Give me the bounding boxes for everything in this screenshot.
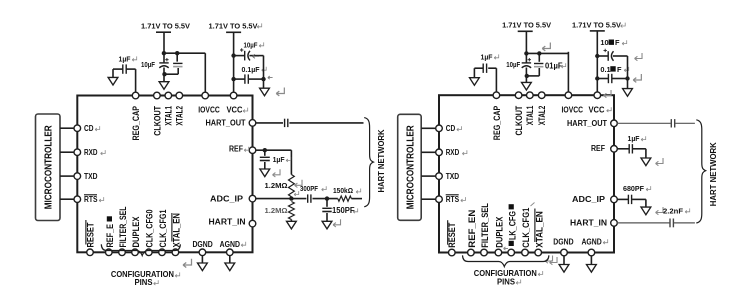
wire parallel cap to merge (right) (538, 68, 540, 76)
modem IC U2 body (439, 95, 614, 252)
svg-text:CLK_CFG0: CLK_CFG0 (145, 209, 155, 247)
missing-glyph boxes in CLK_CFG0 (509, 241, 514, 246)
svg-text:CLK_CFG1: CLK_CFG1 (158, 209, 168, 247)
svg-text:1µF: 1µF (119, 54, 132, 63)
wire merge caps (right) (526, 75, 539, 77)
pin CLKOUT (154, 92, 161, 99)
svg-text:RTS: RTS (84, 195, 98, 204)
mark after 1uF (right) (494, 54, 499, 59)
ground supply2 (260, 88, 270, 96)
capacitor 0.1uF (VCC right) (607, 74, 609, 83)
svg-text:CD: CD (84, 124, 94, 133)
mark after 0.1uF (262, 67, 267, 72)
svg-text:MICROCONTROLLER: MICROCONTROLLER (44, 125, 55, 210)
junction VCC 0.1uF tap (231, 77, 235, 81)
wire 10uF to vert (right) (613, 55, 628, 57)
capacitor 1uF (REF right) (628, 144, 630, 153)
resistor 1.2M upper (289, 175, 295, 197)
pin HART_OUT (249, 120, 256, 127)
pin REF (249, 147, 256, 154)
wire MCU to RTS (60, 198, 74, 200)
mark after 1uF REF (286, 157, 291, 162)
pin VCC (230, 92, 237, 99)
svg-text:LK_CFG: LK_CFG (507, 211, 517, 240)
svg-text:10: 10 (600, 38, 608, 47)
wire parallel cap to merge (177, 68, 179, 74)
mark after supply2 label (right) (621, 23, 626, 28)
ground DGND (right) (563, 256, 565, 265)
ground REG_CAP cap (108, 77, 118, 85)
overline RTS (right) (446, 194, 459, 196)
capacitor 10uF polarized (IOVCC right) (522, 62, 531, 64)
svg-text:HART_IN: HART_IN (570, 218, 607, 227)
wire 0.1uF to vert (249, 78, 264, 80)
modem IC U1 body (77, 96, 252, 253)
svg-text:REF: REF (229, 144, 243, 153)
wire supply1 node to IOVCC corner (164, 52, 205, 54)
wire cap to corner (right) (632, 198, 646, 200)
pin TXD (right) (436, 173, 443, 180)
wire cap to network (289, 122, 363, 124)
svg-text:AGND: AGND (581, 237, 602, 246)
capacitor parallel (IOVCC) (173, 62, 182, 64)
svg-text:AGND: AGND (220, 240, 241, 249)
formatting mark near supply2 ground (276, 88, 284, 96)
configuration pins brace (101, 244, 180, 255)
svg-text:RXD: RXD (84, 148, 98, 157)
wire corner down (right) (645, 199, 647, 207)
svg-text:XTAL2: XTAL2 (537, 106, 547, 126)
wire supply2 down to VCC pin (right) (596, 31, 598, 92)
pin REF (right) (611, 146, 618, 153)
junction supply1 left (162, 51, 166, 55)
junction REF cap (263, 148, 267, 152)
overline RESET (right) (447, 220, 449, 245)
ground REG_CAP cap (right) (470, 78, 480, 86)
svg-text:MICROCONTROLLER: MICROCONTROLLER (405, 125, 416, 210)
formatting arrow on wire after 10uF cap (252, 54, 259, 58)
junction supply1 right (right) (537, 51, 541, 55)
pin RXD (74, 149, 81, 156)
wire MCU to CD (60, 127, 74, 129)
pin RESET (87, 249, 94, 256)
wire to 10uF (right) (525, 53, 527, 62)
svg-text:DGND: DGND (553, 237, 574, 246)
ground 680PF (right) (641, 207, 651, 215)
svg-text:10µF: 10µF (141, 60, 156, 69)
svg-text:REG_CAP: REG_CAP (492, 106, 502, 141)
svg-text:1µF: 1µF (481, 52, 494, 61)
wire MCU to TXD (right) (421, 175, 436, 177)
svg-text:HART NETWORK: HART NETWORK (709, 142, 718, 206)
svg-text:1.2MΩ: 1.2MΩ (265, 181, 288, 190)
HART network brace (right) (696, 120, 705, 223)
pin XTAL_EN (right) (535, 249, 542, 256)
wire down to IOVCC pin (right) (567, 52, 569, 92)
mark after 10uF (right) (622, 40, 627, 45)
pin HART_IN (249, 220, 256, 227)
svg-text:1µF: 1µF (273, 155, 286, 164)
overline XTAL_EN (right) (534, 209, 536, 243)
svg-text:XTAL_EN: XTAL_EN (534, 211, 544, 248)
overline XTAL_EN (171, 213, 173, 242)
mark after RTS (right) (461, 197, 466, 202)
formatting mark near supply2 ground (right) (633, 74, 641, 82)
svg-text:F: F (617, 65, 622, 74)
wire REG_CAP up (right) (495, 68, 497, 92)
wire down to ground (right) (473, 68, 475, 78)
wire cap to ground leg (113, 68, 123, 70)
wire cap to ground leg (right) (474, 67, 483, 69)
pin CLKOUT (right) (515, 92, 522, 99)
svg-text:1µF: 1µF (628, 134, 641, 143)
wire supply1 down (163, 32, 165, 53)
pin RXD (right) (436, 149, 443, 156)
capacitor 0.1uF (VCC) (244, 74, 246, 83)
wire caps to ground (right) (627, 56, 629, 89)
formatting mark near brace (183, 259, 192, 268)
svg-text:150PF: 150PF (332, 206, 355, 215)
wire down to ground (112, 69, 114, 77)
svg-text:10µF: 10µF (244, 40, 259, 49)
svg-text:ADC_IP: ADC_IP (572, 195, 606, 204)
svg-text:VCC: VCC (589, 105, 605, 114)
wire cap to REG_CAP (126, 68, 135, 70)
wire corner down (right) (645, 149, 647, 158)
formatting mark near REF ground (right) (656, 158, 663, 166)
pin IOVCC (202, 92, 209, 99)
svg-text:IOVCC: IOVCC (198, 106, 220, 115)
svg-text:680PF: 680PF (623, 184, 644, 193)
svg-text:F: F (615, 38, 620, 47)
mark after RXD (101, 150, 106, 155)
mark after PINS (154, 280, 159, 285)
svg-text:HART_IN: HART_IN (209, 218, 246, 227)
pin CD (74, 125, 81, 132)
wire REF to cap (right) (617, 148, 629, 150)
svg-text:REG_CAP: REG_CAP (131, 106, 141, 141)
wire 0.1uF to vert (right) (612, 78, 627, 80)
ground AGND (229, 256, 231, 264)
configuration pins brace (right) (463, 255, 549, 266)
svg-text:IOVCC: IOVCC (562, 105, 584, 114)
stray mark between DUPLEX and CLK_CFG0 (504, 247, 509, 250)
wire ADC_IP to cap (right) (617, 198, 628, 200)
overline RESET (85, 220, 87, 245)
svg-text:FILTER_SEL: FILTER_SEL (118, 206, 128, 247)
svg-text:XTAL1: XTAL1 (164, 106, 174, 126)
ground 150PF (322, 221, 332, 229)
missing-glyph box in 0.1uF label (610, 66, 615, 71)
mark after 1uF REF (right) (641, 136, 646, 141)
wire REF cap to ground (264, 162, 266, 169)
formatting mark near 680PF ground (right) (656, 207, 663, 215)
wire down to IOVCC pin (204, 53, 206, 92)
pin XTAL1 (right) (527, 92, 534, 99)
pin XTAL_EN (172, 249, 179, 256)
pin DUPLEX (132, 249, 139, 256)
capacitor 1uF (REG_CAP) (122, 64, 124, 73)
wire lower resistor to ground (290, 220, 292, 222)
svg-text:0.1µF: 0.1µF (242, 65, 261, 74)
pin RTS (74, 196, 81, 203)
mark after RXD (right) (462, 150, 467, 155)
junction 150PF (325, 196, 329, 200)
svg-text:TXD: TXD (84, 172, 98, 181)
pin HART_OUT (right) (611, 120, 618, 127)
wire 10uF to merge (163, 68, 165, 75)
wire 150k to network (351, 198, 362, 200)
svg-text:XTAL_EN: XTAL_EN (171, 213, 181, 248)
svg-text:RESET: RESET (85, 222, 95, 248)
svg-text:DUPLEX: DUPLEX (495, 217, 505, 248)
formatting arrow near 0.1uF wire (268, 76, 273, 79)
wire HART_IN to cap (right) (617, 222, 669, 224)
HART network brace (364, 118, 373, 207)
svg-text:PINS: PINS (497, 277, 515, 286)
wire cap to network (right) (675, 122, 695, 124)
wire 10uF to merge (right) (525, 68, 527, 76)
pin HART_IN (right) (611, 220, 618, 227)
svg-text:CD: CD (446, 124, 456, 133)
svg-text:TXD: TXD (446, 172, 460, 181)
svg-text:CLKOUT: CLKOUT (152, 105, 162, 135)
pin AGND (right) (588, 249, 595, 256)
pin CD (right) (436, 125, 443, 132)
wire MCU to RTS (right) (421, 198, 436, 200)
pin ADC_IP (249, 195, 256, 202)
pin XTAL2 (right) (538, 92, 545, 99)
mark after 150k (356, 189, 361, 194)
svg-text:REF: REF (591, 144, 605, 153)
capacitor 10uF polarized (IOVCC) (159, 62, 168, 64)
mark after CONFIGURATION (right) (538, 271, 543, 276)
wire HART_OUT to cap (right) (617, 122, 671, 124)
capacitor 680PF (right) (627, 195, 629, 204)
capacitor 10uF polarized (VCC) (244, 51, 246, 61)
wire supply1 to IOVCC corner (right) (526, 52, 568, 54)
mark after CONFIGURATION (175, 272, 180, 277)
svg-text:0.1: 0.1 (600, 65, 610, 74)
pin IOVCC (right) (565, 92, 572, 99)
capacitor 1uF (REG_CAP right) (482, 64, 484, 73)
mark after 10uF (259, 42, 264, 47)
power rail supply2 (226, 31, 241, 33)
capacitor HART_OUT coupling (284, 119, 286, 127)
junction VCC 10uF tap (right) (595, 54, 599, 58)
svg-text:DUPLEX: DUPLEX (131, 216, 141, 247)
formatting mark right of 10uF cap (right) (635, 53, 642, 61)
power rail supply2 (right) (590, 30, 605, 32)
mark after VCC (243, 108, 248, 113)
svg-text:PINS: PINS (135, 278, 153, 287)
resistor 1.2M lower (289, 202, 295, 220)
junction caps merge (right) (525, 74, 529, 78)
pin TXD (74, 173, 81, 180)
wire REF right (256, 149, 292, 151)
stray mark near CLK_CFG1 (531, 203, 535, 207)
wire 10uF to vert (249, 55, 263, 57)
svg-text:REF_E: REF_E (105, 224, 115, 248)
pin RTS (right) (436, 196, 443, 203)
mark after VCC (right) (607, 107, 612, 112)
wire cap to corner (right) (633, 148, 646, 150)
mark after AGND (241, 242, 246, 247)
pin REF_EN (right) (468, 249, 475, 256)
svg-text:10µF: 10µF (506, 60, 521, 69)
mark after supply2 label (257, 23, 262, 28)
capacitor HART_OUT coupling (right) (670, 119, 672, 127)
pin DGND (right) (561, 249, 568, 256)
svg-text:1.71V TO 5.5V: 1.71V TO 5.5V (502, 22, 551, 29)
mark after 680PF (right) (646, 186, 651, 191)
formatting mark near brace (right) (550, 257, 557, 265)
svg-text:ADC_IP: ADC_IP (210, 194, 244, 203)
pin CLK_CFG0 (right) (508, 249, 515, 256)
wire to 10uF cap (163, 53, 165, 62)
wire to 0.1uF (234, 78, 245, 80)
wire to parallel cap (right) (538, 53, 540, 61)
svg-text:HART_OUT: HART_OUT (206, 119, 246, 128)
capacitor 2.2nF (right) (669, 219, 671, 228)
microcontroller block (right) (398, 114, 422, 220)
ground DGND (201, 256, 203, 264)
pin FILTER_SEL (right) (481, 249, 488, 256)
capacitor parallel 01uF (right) (534, 63, 543, 65)
svg-text:CLK_CFG1: CLK_CFG1 (521, 208, 531, 248)
wire MCU to RXD (60, 151, 74, 153)
resistor 150k (338, 196, 352, 201)
formatting mark left of DGND (545, 256, 552, 264)
mark after REF (244, 147, 249, 152)
pin RESET (right) (449, 249, 456, 256)
svg-text:XTAL2: XTAL2 (175, 106, 185, 126)
pin DUPLEX (right) (495, 249, 502, 256)
wire caps to ground (263, 56, 265, 89)
junction VCC 10uF tap (231, 53, 235, 57)
wire merge caps (164, 73, 178, 75)
pin XTAL1 (165, 92, 172, 99)
mark after 150PF (353, 208, 358, 213)
mark after 300PF (322, 186, 327, 191)
junction supply1 left (right) (524, 51, 528, 55)
wire to 150PF (326, 199, 328, 207)
second mark near upper resistor (294, 191, 299, 196)
pin REG_CAP (132, 92, 139, 99)
pin DGND (199, 249, 206, 256)
wire to parallel cap (176, 53, 178, 61)
pin FILTER_SEL (119, 249, 126, 256)
mark after 2.2nF (right) (685, 208, 690, 213)
wire MCU to TXD (60, 175, 74, 177)
capacitor 1uF (REF) (260, 156, 270, 158)
wire cap to REG_CAP (right) (488, 67, 496, 69)
mark after 1uF (132, 56, 137, 61)
pin ADC_IP (right) (611, 196, 618, 203)
formatting mark right of VCC pin (604, 90, 611, 98)
missing-glyph box in REF_EN (107, 216, 112, 221)
wire to 10uF (234, 55, 245, 57)
junction caps merge (162, 72, 166, 76)
pin CLK_CFG0 (146, 249, 153, 256)
junction ADC_IP divider (289, 196, 293, 200)
svg-text:REF_EN: REF_EN (467, 210, 477, 248)
mark after 01uF (561, 63, 566, 68)
ground supply1 (right) (525, 76, 527, 83)
mark after RTS (99, 197, 104, 202)
svg-text:RESET: RESET (447, 222, 457, 248)
power rail supply1 (156, 31, 171, 33)
junction 0.1uF to ground (261, 77, 265, 81)
wire MCU to RXD (right) (421, 151, 436, 153)
capacitor 300PF (307, 194, 309, 202)
mark after AGND (right) (603, 239, 608, 244)
mark after CD (right) (457, 126, 462, 131)
mark after PINS (right) (516, 280, 521, 285)
ground REF cap (260, 169, 270, 177)
mark after 0.1uF (right) (624, 67, 629, 72)
ground AGND (right) (590, 256, 592, 265)
wire to 10uF (right) (597, 55, 608, 57)
wire 300PF to 150k (313, 198, 338, 200)
power rail supply1 (right) (518, 30, 533, 32)
svg-text:300PF: 300PF (300, 184, 319, 193)
svg-text:150kΩ: 150kΩ (333, 186, 353, 195)
svg-text:HART_OUT: HART_OUT (567, 119, 607, 128)
svg-text:FILTER_SEL: FILTER_SEL (480, 203, 490, 248)
svg-text:1.71V TO 5.5V: 1.71V TO 5.5V (141, 23, 190, 30)
svg-text:1.2MΩ: 1.2MΩ (265, 206, 288, 215)
svg-text:RTS: RTS (446, 195, 460, 204)
pin VCC (right) (594, 92, 601, 99)
ground supply1 (163, 74, 165, 82)
pin AGND (227, 249, 234, 256)
svg-text:XTAL1: XTAL1 (525, 106, 535, 126)
missing-glyph box in 10uF label (609, 40, 614, 45)
wire MCU to CD (right) (421, 127, 436, 129)
svg-text:DGND: DGND (192, 240, 213, 249)
wire HART_OUT to cap (256, 122, 283, 124)
formatting mark above 01uF (542, 43, 550, 51)
wire ADC_IP right (256, 198, 307, 200)
svg-text:1.71V TO 5.5V: 1.71V TO 5.5V (572, 22, 621, 29)
svg-text:CLKOUT: CLKOUT (514, 105, 524, 135)
pin XTAL2 (176, 92, 183, 99)
wire REG_CAP up (135, 69, 137, 92)
microcontroller block (36, 114, 61, 221)
pin REF_EN (106, 249, 113, 256)
svg-text:2.2nF: 2.2nF (663, 206, 683, 215)
wire cap to network (right) (674, 222, 695, 224)
junction VCC 0.1uF tap (right) (595, 76, 599, 80)
svg-text:01µF: 01µF (545, 61, 563, 70)
formatting mark near REF ground (273, 169, 280, 177)
formatting mark near 150PF ground (333, 219, 340, 227)
capacitor 150PF (322, 207, 331, 209)
ground REF (right) (641, 158, 651, 166)
capacitor 10uF polarized (VCC right) (607, 51, 609, 61)
wire REF cap branch (264, 150, 266, 156)
mark after CD (95, 126, 100, 131)
ground 1.2M lower (287, 221, 297, 229)
svg-text:HART NETWORK: HART NETWORK (377, 129, 386, 192)
junction supply1 right (175, 51, 179, 55)
wire REF corner down (290, 150, 292, 174)
wire supply1 down (right) (525, 31, 527, 53)
pin REG_CAP (right) (493, 92, 500, 99)
pin CLK_CFG1 (right) (522, 249, 529, 256)
wire supply2 down to VCC pin (233, 32, 235, 92)
